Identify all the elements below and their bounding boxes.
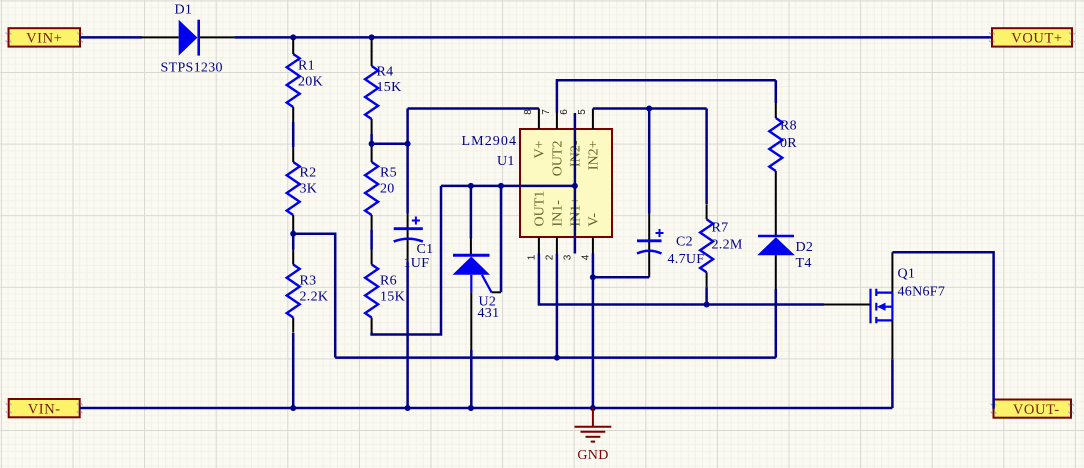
svg-text:VOUT+: VOUT+	[1011, 31, 1062, 47]
svg-text:IN1-: IN1-	[551, 200, 566, 227]
diode D2	[757, 236, 795, 289]
wire U2 cathode net horizontal	[441, 185, 575, 188]
wire C1 rail to op-amp V+ pin 8	[408, 107, 539, 110]
wire OUT2 pin7 to R8 top	[557, 80, 776, 112]
wire IN1- pin2 down to divider net	[556, 254, 559, 358]
svg-text:1: 1	[527, 254, 538, 260]
svg-text:D2: D2	[796, 240, 814, 255]
wire C1 to bottom rail	[406, 262, 409, 408]
wire R1 to R2	[292, 122, 295, 147]
shunt reference U2 (431)	[453, 186, 502, 350]
svg-text:C2: C2	[676, 235, 693, 250]
svg-text:1UF: 1UF	[404, 256, 430, 271]
svg-text:3K: 3K	[300, 182, 318, 197]
svg-text:5: 5	[577, 109, 588, 115]
Q1 gate pin	[824, 304, 870, 306]
svg-text:VOUT-: VOUT-	[1013, 402, 1060, 418]
wire down to R7 top	[705, 109, 708, 205]
svg-text:C1: C1	[417, 242, 434, 257]
wire R7 bottom to gate wire	[705, 287, 708, 304]
wire R5 to R6	[370, 230, 373, 250]
svg-text:OUT2: OUT2	[551, 141, 566, 177]
svg-text:VIN-: VIN-	[28, 401, 61, 417]
svg-text:0R: 0R	[780, 136, 797, 151]
svg-text:2.2K: 2.2K	[300, 290, 329, 305]
R1 pin 2	[292, 107, 294, 122]
junction C2 top	[646, 106, 652, 112]
wire U2 anode to bottom rail	[470, 350, 473, 408]
wire D1 cathode to VOUT+	[235, 36, 992, 39]
capacitor C2	[637, 213, 664, 277]
svg-text:R3: R3	[300, 274, 317, 289]
Q1 drain pin	[891, 252, 893, 292]
wire Q1 drain to VOUT-	[892, 252, 993, 408]
resistor R4	[365, 66, 378, 119]
junction V- GND / bottom rail	[590, 405, 596, 411]
svg-text:U1: U1	[497, 154, 515, 169]
R8 pin 2	[775, 171, 777, 186]
resistor R8	[769, 118, 782, 171]
wire VIN+ to D1 anode	[80, 36, 142, 39]
wire R4 to R5	[370, 134, 373, 147]
R1 pin 1	[292, 39, 294, 54]
R5 pin 1	[371, 147, 373, 162]
port VIN-	[6, 399, 83, 417]
svg-text:Q1: Q1	[898, 267, 916, 282]
svg-text:R8: R8	[780, 119, 797, 134]
svg-text:GND: GND	[577, 448, 608, 463]
svg-text:R4: R4	[377, 65, 394, 80]
Q1 source pin	[891, 320, 893, 359]
svg-text:IN1+: IN1+	[569, 197, 584, 227]
svg-text:IN2+: IN2+	[587, 140, 602, 170]
junction U2 cathode	[468, 183, 474, 189]
svg-text:VIN+: VIN+	[26, 31, 62, 47]
ground GND	[575, 408, 612, 442]
svg-text:7: 7	[541, 109, 552, 115]
transistor Q1	[871, 289, 893, 324]
R3 pin 2	[292, 318, 294, 333]
svg-text:4: 4	[581, 254, 592, 260]
resistor R5	[365, 162, 378, 215]
svg-text:D1: D1	[175, 3, 193, 18]
junction C1 rail / R4-R5 wire	[405, 141, 411, 147]
svg-text:OUT1: OUT1	[533, 191, 548, 227]
svg-text:STPS1230: STPS1230	[161, 61, 223, 76]
svg-text:2.2M: 2.2M	[712, 238, 743, 253]
resistor R6	[365, 265, 378, 318]
svg-text:V-: V-	[587, 213, 602, 227]
svg-text:LM2904: LM2904	[462, 134, 518, 149]
svg-text:T4: T4	[796, 256, 812, 271]
junction R2-R3 divider tap node	[290, 231, 296, 237]
svg-text:46N6F7: 46N6F7	[898, 285, 946, 300]
U1 pin 5	[592, 109, 594, 130]
R4 pin 2	[371, 119, 373, 134]
junction IN1+/IN2- wire	[572, 183, 578, 189]
svg-text:8: 8	[523, 109, 534, 115]
U1 pin 4	[592, 237, 594, 254]
svg-text:V+: V+	[533, 140, 548, 158]
wire IN2- to IN1+ through U1	[574, 113, 577, 254]
svg-text:4.7UF: 4.7UF	[668, 252, 705, 267]
capacitor C1	[394, 213, 423, 262]
diode D1	[142, 20, 235, 56]
U1 pin 7	[556, 113, 558, 130]
wire C1 top rail	[406, 109, 409, 214]
svg-text:R7: R7	[712, 221, 729, 236]
U1 pin 6	[574, 113, 576, 129]
junction R7 bottom / gate wire	[704, 302, 710, 308]
wire C2 top	[648, 109, 651, 214]
junction C1 / bottom rail	[405, 405, 411, 411]
wire D2 anode down to IN1- net	[775, 289, 778, 358]
R6 pin 2	[371, 318, 373, 333]
junction U2 ref	[498, 183, 504, 189]
R4 pin 1	[371, 51, 373, 66]
junction top rail / R1	[290, 34, 296, 40]
R2 pin 1	[292, 147, 294, 162]
port VIN+	[6, 28, 84, 46]
wire R3 to bottom rail	[292, 333, 295, 408]
junction C2 bottom / V- wire	[590, 274, 596, 280]
junction U2 / bottom rail	[468, 405, 474, 411]
wire Q1 source down	[891, 359, 894, 408]
svg-text:3: 3	[563, 254, 574, 260]
svg-text:431: 431	[478, 306, 500, 321]
svg-text:R2: R2	[300, 166, 317, 181]
R4 pin 1 upper part	[371, 40, 373, 52]
svg-text:20K: 20K	[298, 75, 323, 90]
resistor R7	[700, 219, 713, 272]
svg-text:20: 20	[380, 182, 395, 197]
R8 pin 1	[775, 103, 777, 118]
wire U2 ref up to cathode net	[500, 186, 503, 292]
wire C2 bottom to V- rail	[593, 276, 649, 279]
svg-text:15K: 15K	[377, 80, 402, 95]
wire R2 to R3	[292, 230, 295, 250]
wire divider tap down	[293, 234, 335, 358]
R7 pin 1	[706, 204, 708, 219]
U1 pin 1	[538, 237, 540, 254]
svg-text:R5: R5	[380, 166, 397, 181]
R6 pin 1	[371, 250, 373, 265]
junction R4-R5 / C1 branch	[369, 141, 375, 147]
wire IN1- net horizontal	[335, 356, 776, 359]
svg-text:R6: R6	[380, 274, 397, 289]
U1 pin 3	[574, 237, 576, 254]
wire OUT1 to Q1 gate	[539, 254, 824, 305]
resistor R3	[287, 265, 300, 318]
R7 pin 2	[706, 272, 708, 287]
op-amp U1 LM2904 body	[520, 129, 612, 237]
U1 pin 8	[538, 109, 540, 130]
wire R6 bottom to U2 cathode net	[372, 186, 441, 335]
svg-text:15K: 15K	[380, 290, 405, 305]
port VOUT-	[991, 400, 1075, 418]
port VOUT+	[989, 28, 1075, 46]
R5 pin 2	[371, 215, 373, 230]
svg-text:R1: R1	[298, 59, 315, 74]
U1 pin 2	[556, 237, 558, 254]
wire VIN- bottom rail	[80, 407, 893, 410]
svg-text:6: 6	[559, 109, 570, 115]
wire V- pin4 to ground rail	[592, 254, 595, 409]
junction IN1- net / pin2 wire	[554, 355, 560, 361]
R8 to D2 link	[775, 186, 777, 236]
wire R4-R5 node to C1 rail	[372, 143, 408, 146]
svg-text:2: 2	[545, 254, 556, 260]
R2 pin 2	[292, 215, 294, 230]
resistor R1	[287, 54, 300, 107]
junction R3 / bottom rail	[290, 405, 296, 411]
R3 pin 1	[292, 250, 294, 265]
wire IN2+ pin5 to R7 branch	[593, 107, 707, 110]
wire R8 top	[775, 80, 778, 103]
svg-text:IN2-: IN2-	[569, 140, 584, 167]
resistor R2	[287, 162, 300, 215]
junction top rail / R4	[369, 34, 375, 40]
